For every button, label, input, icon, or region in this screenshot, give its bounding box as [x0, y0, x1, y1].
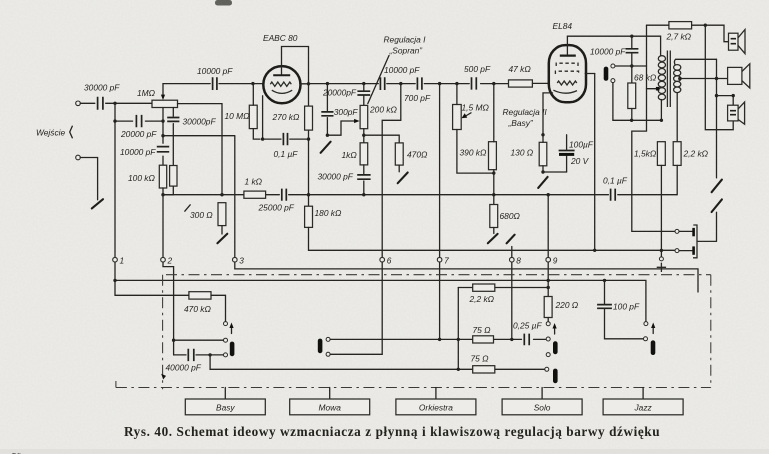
dashed enclosure bottom — [116, 381, 711, 388]
svg-text:300 Ω: 300 Ω — [190, 210, 213, 220]
basy contact 3 — [224, 353, 228, 357]
wire 100k left bottom — [162, 188, 164, 260]
wire secondary top lead — [674, 59, 716, 64]
resistor 180k — [305, 206, 342, 227]
label Regulacja I Sopran — [368, 34, 426, 103]
capacitor 30000pF sopran — [318, 172, 371, 182]
switch stroke below 470 — [398, 173, 408, 184]
svg-text:7: 7 — [444, 255, 449, 265]
node cathode junction — [261, 137, 264, 140]
wire 390k top — [493, 84, 495, 142]
tube EABC80 anode bar — [273, 74, 290, 76]
capacitor 40000pF — [166, 349, 202, 373]
wire top bus y83.6 left segment — [163, 83, 251, 85]
node 680 top bus junction — [492, 193, 495, 196]
speaker key contact circles — [611, 64, 615, 68]
wire x716.5 speaker column — [716, 59, 718, 178]
wire 47k to EL84 grid — [532, 82, 549, 84]
wire 2,2k bottom to bus — [676, 165, 678, 194]
resistor 1,5k — [634, 142, 665, 166]
capacitor 100pF — [597, 302, 640, 312]
svg-text:100µF: 100µF — [569, 139, 594, 149]
node 200k bottom junction — [362, 134, 365, 137]
wire anode top bus y36 — [567, 36, 660, 55]
wire 10M top lead — [252, 84, 254, 106]
node bus280 100pF junction — [603, 279, 606, 282]
capacitor 0,1uF output — [603, 176, 628, 201]
wire 200k bottom — [363, 129, 365, 143]
capacitor 10000pF series mid — [380, 65, 420, 90]
switch stroke speaker line b — [712, 199, 722, 212]
svg-text:10000 pF: 10000 pF — [197, 66, 233, 76]
resistor 680ohm — [490, 205, 521, 228]
wire terminal1 below — [114, 262, 116, 295]
tube EABC80 cathode lead — [262, 96, 264, 139]
svg-text:30000 pF: 30000 pF — [318, 172, 354, 182]
wire row y250.3 long — [309, 249, 675, 251]
tube EL84 screen grid dashed — [556, 63, 578, 66]
resistor 390k — [460, 142, 497, 170]
switch stroke below 300pF branch — [321, 142, 331, 153]
svg-text:„Basy”: „Basy” — [508, 118, 534, 128]
tube EABC80 grid right stub — [300, 83, 309, 85]
node row339 458 junction — [457, 338, 460, 341]
capacitor 10000pF vertical — [120, 147, 169, 158]
node wiper-136 junction — [161, 134, 164, 137]
svg-text:10000 pF: 10000 pF — [120, 147, 156, 157]
node 300pF drop junction — [326, 82, 329, 85]
label box Jazz — [603, 388, 683, 415]
node plus terminal — [659, 257, 663, 261]
transformer primary coil — [658, 56, 665, 100]
node terminal7 feed junction — [438, 82, 441, 85]
plus sign B+ — [657, 263, 666, 272]
mowa contact 2 — [326, 352, 330, 356]
capacitor 100uF electrolytic — [559, 135, 594, 172]
capacitor 30000pF under pot — [167, 117, 216, 127]
transformer secondary coil — [674, 65, 681, 93]
node bus195 start junction — [161, 193, 164, 196]
speaker S2 — [728, 64, 750, 88]
wire 390k bottom to bus — [493, 170, 495, 205]
output key upper contact — [675, 229, 679, 233]
resistor 75ohm upper — [473, 325, 494, 343]
resistor 2,2k right — [673, 142, 708, 166]
solo contact 4 — [545, 367, 549, 371]
capacitor 20000pF — [120, 115, 157, 139]
wire 270k bottom to bus — [308, 130, 310, 206]
node bus280 left junction — [113, 279, 116, 282]
node plus junction — [660, 249, 663, 252]
wire 200k bottom to 470 — [364, 135, 399, 143]
solo contact 2 — [546, 337, 550, 341]
node wiper-20000pF junction — [161, 119, 164, 122]
svg-text:2: 2 — [167, 255, 173, 265]
bus y195 left segments — [163, 194, 677, 196]
wire row y120.3 — [613, 119, 662, 121]
wire EL84 screen drop x594.7 — [594, 74, 596, 251]
tube EL84 control grid dashed — [555, 71, 578, 74]
svg-text:47 kΩ: 47 kΩ — [509, 64, 532, 74]
wire terminal3 below to orkiestra rail — [235, 262, 698, 292]
wire speaker line to key — [716, 212, 718, 241]
output key lower contact — [675, 249, 679, 253]
wire 130 top lead — [542, 135, 544, 143]
basy arrow — [229, 323, 233, 334]
resistor 470k — [184, 292, 211, 315]
output key slat bracket — [693, 225, 717, 258]
svg-text:25000 pF: 25000 pF — [258, 202, 295, 212]
tube EL84 anode lead up — [566, 36, 568, 54]
svg-text:2,2 kΩ: 2,2 kΩ — [469, 294, 495, 304]
top bus y83.6 middle segments — [309, 83, 509, 85]
node s3 top junction — [732, 94, 735, 97]
potentiometer 1M — [137, 88, 178, 107]
dashed enclosure right — [710, 275, 712, 388]
basy key bar — [230, 342, 235, 357]
svg-text:Rys. 40. Schemat ideowy wzmacn: Rys. 40. Schemat ideowy wzmacniacza z pł… — [124, 424, 660, 439]
svg-text:0,1 µF: 0,1 µF — [274, 149, 299, 159]
jazz contact 1 — [644, 322, 648, 326]
svg-text:270 kΩ: 270 kΩ — [272, 112, 300, 122]
svg-text:9: 9 — [553, 255, 558, 265]
tube EL84 screen lead right — [585, 73, 595, 75]
transformer primary tap — [647, 87, 660, 91]
wire cathode row y139 — [263, 138, 309, 140]
node y66 junction — [630, 64, 633, 67]
wire 1,5M bottom row — [457, 130, 494, 174]
speaker S1 — [729, 30, 746, 54]
wire jack1 to C 30000pF — [80, 102, 95, 104]
page artifact top — [215, 0, 232, 6]
wire C to node A — [106, 102, 152, 104]
tube EABC80 anode lead up and over — [282, 47, 309, 107]
wire mowa row1 to 0,25uF — [440, 338, 546, 340]
switch stroke terminal 8 — [507, 235, 515, 244]
node input jack 1 — [76, 101, 81, 106]
wire x646.5 tap line — [632, 25, 675, 231]
node 270k bottom junction — [307, 137, 310, 140]
wire 68k bottom — [631, 109, 633, 121]
label Wejscie — [36, 126, 72, 138]
resistor 1k sopran — [342, 143, 368, 165]
tube EABC80 cathode arc — [272, 90, 292, 93]
wire terminal6 feed L — [382, 84, 401, 258]
wire primary bottom lead — [660, 100, 662, 121]
wire 300pF branch x327 — [326, 84, 328, 136]
wire 100pF branch — [605, 280, 644, 338]
wire basy row2 — [174, 339, 224, 341]
capacitor 10000pF output — [590, 46, 638, 56]
wire terminal8 vertical — [511, 247, 513, 340]
node A junction — [113, 102, 116, 105]
wire secondary bottom lead — [676, 93, 678, 142]
resistor 2,7k — [666, 22, 692, 42]
terminal 8 — [510, 255, 522, 265]
output key upper bar — [679, 228, 695, 236]
resistor 300ohm — [185, 203, 226, 226]
resistor 68k — [628, 73, 657, 109]
svg-text:0,25 µF: 0,25 µF — [513, 320, 542, 330]
wire x458 drop — [457, 288, 459, 370]
resistor 47k series — [509, 64, 533, 87]
wire terminal7 drop — [439, 84, 441, 258]
wire 2,7k right lead — [692, 25, 729, 42]
capacitor 500pF series — [464, 64, 491, 89]
node 300pF bottom junction — [326, 134, 329, 137]
svg-text:220 Ω: 220 Ω — [555, 300, 579, 310]
node terminal6 feed junction — [399, 82, 402, 85]
wire terminal9 down — [547, 195, 549, 297]
wire 470 bottom lead — [398, 165, 400, 172]
wire 2,7k left lead — [647, 24, 669, 26]
svg-text:Orkiestra: Orkiestra — [419, 403, 453, 413]
transformer core — [667, 51, 670, 108]
solo key bar upper — [553, 341, 558, 354]
wire 2,2k key row — [458, 287, 548, 289]
mowa contact 1 — [326, 337, 330, 341]
bus y280.4 — [115, 280, 646, 321]
node 300ohm top junction — [220, 193, 223, 196]
node row369 junction — [457, 368, 460, 371]
output key lower bar — [679, 246, 695, 254]
resistor 100k left — [128, 165, 167, 188]
wire mowa row2 to terminal6 — [330, 262, 382, 354]
capacitor 10000pF feedback — [197, 66, 233, 90]
svg-text:Jazz: Jazz — [633, 403, 652, 413]
node 30000pF bus junction — [362, 193, 365, 196]
node 47k left junction — [492, 82, 495, 85]
svg-text:EL84: EL84 — [553, 21, 573, 31]
node row339 512 junction — [510, 338, 513, 341]
dashed enclosure top — [166, 274, 711, 276]
svg-text:2,7 kΩ: 2,7 kΩ — [666, 31, 692, 41]
svg-text:1,5 MΩ: 1,5 MΩ — [462, 102, 490, 112]
resistor 220ohm — [544, 297, 579, 318]
node mowa row junction t7 — [438, 338, 441, 341]
speaker S3 — [728, 102, 745, 124]
node anode-grid junction — [307, 82, 310, 85]
svg-text:EABC 80: EABC 80 — [263, 33, 298, 43]
wire terminal2 below L — [163, 262, 174, 355]
mowa key bar — [318, 339, 323, 354]
switch stroke below 680 — [488, 234, 498, 243]
tube EL84 heater arc — [553, 90, 577, 93]
basy contact 1 — [224, 322, 228, 326]
wire pot bottom left leg — [162, 108, 164, 166]
terminal 9 — [546, 255, 558, 265]
svg-text:300pF: 300pF — [334, 107, 359, 117]
terminal 7 — [437, 255, 449, 265]
wire jack2 down to ground — [80, 158, 97, 200]
ground chassis stroke — [92, 199, 103, 208]
jazz contact 2 — [644, 337, 648, 341]
svg-text:1 kΩ: 1 kΩ — [245, 176, 263, 186]
potentiometer 200k — [360, 104, 397, 128]
node 1,5k row junction — [660, 119, 663, 122]
capacitor 25000pF series — [258, 189, 295, 213]
label box Solo — [502, 388, 582, 415]
tube EL84 anode bar — [560, 54, 576, 56]
node terminal9 bus195 junction — [547, 193, 550, 196]
svg-text:75 Ω: 75 Ω — [473, 325, 492, 335]
wire x705 down — [705, 25, 733, 130]
svg-text:1MΩ: 1MΩ — [137, 88, 156, 98]
wire 220 bottom — [547, 318, 549, 322]
terminal 2 — [161, 255, 173, 265]
svg-text:200 kΩ: 200 kΩ — [369, 104, 397, 114]
speaker key bar — [604, 67, 609, 81]
node 2,2k right junction — [547, 286, 550, 289]
wire bottom long row y369.3 — [210, 355, 545, 369]
svg-text:3: 3 — [239, 255, 244, 265]
wire 300ohm bottom lead — [221, 226, 223, 234]
node s3 feed junction — [715, 94, 718, 97]
switch stroke below 300ohm — [217, 234, 227, 244]
label box Mowa — [290, 388, 370, 415]
tube EABC80 grid zigzag — [270, 82, 291, 86]
tube EL84 cathode zigzag — [557, 81, 577, 85]
wire 680 bottom lead — [493, 228, 495, 234]
svg-text:20000pF: 20000pF — [322, 87, 357, 97]
wire node A down to terminal 1 — [114, 103, 116, 257]
solo key bar lower — [553, 369, 558, 384]
svg-text:500 pF: 500 pF — [464, 64, 491, 74]
wire junction to tube left — [253, 83, 264, 85]
wire terminal3 vertical — [234, 136, 236, 257]
solo contact 3 — [546, 353, 550, 357]
node 68k row junction — [630, 119, 633, 122]
wire 1,5k bottom — [660, 165, 662, 256]
node 40000pF junction — [208, 353, 211, 356]
wire wiper arm 200k — [327, 121, 355, 135]
svg-text:20000 pF: 20000 pF — [120, 129, 157, 139]
resistor 470ohm — [395, 143, 428, 165]
svg-text:Mowa: Mowa — [319, 403, 342, 413]
svg-text:180 kΩ: 180 kΩ — [315, 208, 342, 218]
wire 100k right bottom corner — [163, 186, 173, 195]
svg-text:„Sopran”: „Sopran” — [389, 45, 424, 55]
svg-text:1: 1 — [120, 255, 125, 265]
jazz key bar — [651, 340, 656, 355]
switch stroke speaker line a — [712, 180, 722, 193]
terminal 3 — [233, 255, 245, 265]
node pot 1,5M top junction — [455, 82, 458, 85]
capacitor 0,25uF — [513, 320, 542, 345]
svg-text:20 V: 20 V — [570, 156, 590, 166]
node 20000pF drop junction — [362, 82, 365, 85]
resistor 130ohm — [511, 142, 547, 166]
svg-text:30000pF: 30000pF — [183, 117, 217, 127]
basy contact 2 — [224, 338, 228, 342]
node basy row2 junction — [172, 339, 175, 342]
capacitor 20000pF sopran — [322, 87, 370, 97]
node input jack 2 — [76, 155, 81, 160]
wire s3 top feed — [717, 96, 734, 106]
svg-text:0,1 µF: 0,1 µF — [603, 176, 628, 186]
svg-text:1,5kΩ: 1,5kΩ — [634, 148, 657, 158]
node 2,7k speaker junction — [704, 24, 707, 27]
label box Basy — [185, 388, 265, 415]
node bus280 terminal9 junction — [547, 279, 550, 282]
svg-text:390 kΩ: 390 kΩ — [460, 147, 487, 157]
dashed enclosure arrowhead — [161, 374, 166, 380]
wire y136 row — [163, 135, 235, 137]
potentiometer 1,5M — [453, 102, 490, 129]
svg-text:8: 8 — [516, 255, 521, 265]
svg-text:Wejście: Wejście — [36, 128, 66, 138]
tube EABC80 envelope — [263, 33, 301, 103]
node s2 feed junction — [715, 77, 718, 80]
capacitor 300pF — [321, 107, 358, 117]
node cathode 100uF junction — [541, 133, 544, 136]
svg-text:100 pF: 100 pF — [613, 302, 640, 312]
svg-text:2,2 kΩ: 2,2 kΩ — [683, 148, 709, 158]
svg-text:1kΩ: 1kΩ — [342, 150, 358, 160]
svg-text:10000 pF: 10000 pF — [590, 46, 626, 56]
jazz arrow — [651, 323, 655, 334]
dashed enclosure left — [162, 275, 164, 390]
wire 130 bottom row — [543, 166, 567, 172]
svg-text:680Ω: 680Ω — [500, 211, 521, 221]
node 20000pF left junction — [113, 119, 116, 122]
node 180k top bus junction — [307, 193, 310, 196]
wire mowa row1 to terminal7 — [330, 262, 439, 339]
wire 10M bottom L — [253, 129, 260, 140]
wire 470k row — [115, 295, 226, 321]
transformer secondary tap — [678, 77, 727, 81]
wire pot right terminal — [178, 104, 223, 195]
tube EL84 envelope — [549, 21, 586, 103]
resistor 270k — [272, 106, 313, 130]
switch stroke below 130 — [538, 177, 547, 188]
svg-text:Basy: Basy — [216, 403, 235, 413]
svg-text:470 kΩ: 470 kΩ — [184, 304, 211, 314]
svg-text:75 Ω: 75 Ω — [471, 353, 490, 363]
svg-text:30000 pF: 30000 pF — [84, 83, 120, 93]
terminal 6 — [380, 255, 392, 265]
node 130 bottom junction — [541, 170, 544, 173]
wire 1,5M top — [456, 84, 458, 105]
svg-text:10 MΩ: 10 MΩ — [225, 111, 251, 121]
node 10M top junction — [251, 82, 254, 85]
svg-text:Solo: Solo — [534, 403, 551, 413]
terminal 1 — [113, 255, 124, 265]
solo arrow — [553, 323, 557, 334]
solo contact 1 — [546, 322, 550, 326]
resistor 1k series — [244, 176, 266, 198]
node screen row junction — [593, 249, 596, 252]
svg-text:700 pF: 700 pF — [404, 93, 431, 103]
capacitor 0,1uF — [274, 133, 299, 159]
pot 1M wiper arrow — [162, 84, 164, 96]
label box Orkiestra — [396, 388, 476, 415]
wire 20000pF to pot 200k — [363, 84, 365, 106]
node 10000pF top junction — [630, 35, 633, 38]
wire 40000pF row — [174, 354, 224, 356]
label Regulacja II Basy — [503, 107, 548, 128]
wire 10000pF branch x631.8 — [631, 36, 633, 83]
svg-text:10000 pF: 10000 pF — [384, 65, 420, 75]
wire 1k to 30000pF — [363, 165, 365, 195]
svg-text:68 kΩ: 68 kΩ — [634, 73, 657, 83]
node 390k-173 junction — [492, 171, 495, 174]
tube EL84 cathode lead — [543, 93, 553, 135]
capacitor 30000pF input — [84, 83, 120, 110]
svg-text:Regulacja II: Regulacja II — [503, 107, 548, 117]
capacitor 700pF series — [404, 77, 431, 103]
wire y66 to key and 646 — [615, 65, 647, 67]
